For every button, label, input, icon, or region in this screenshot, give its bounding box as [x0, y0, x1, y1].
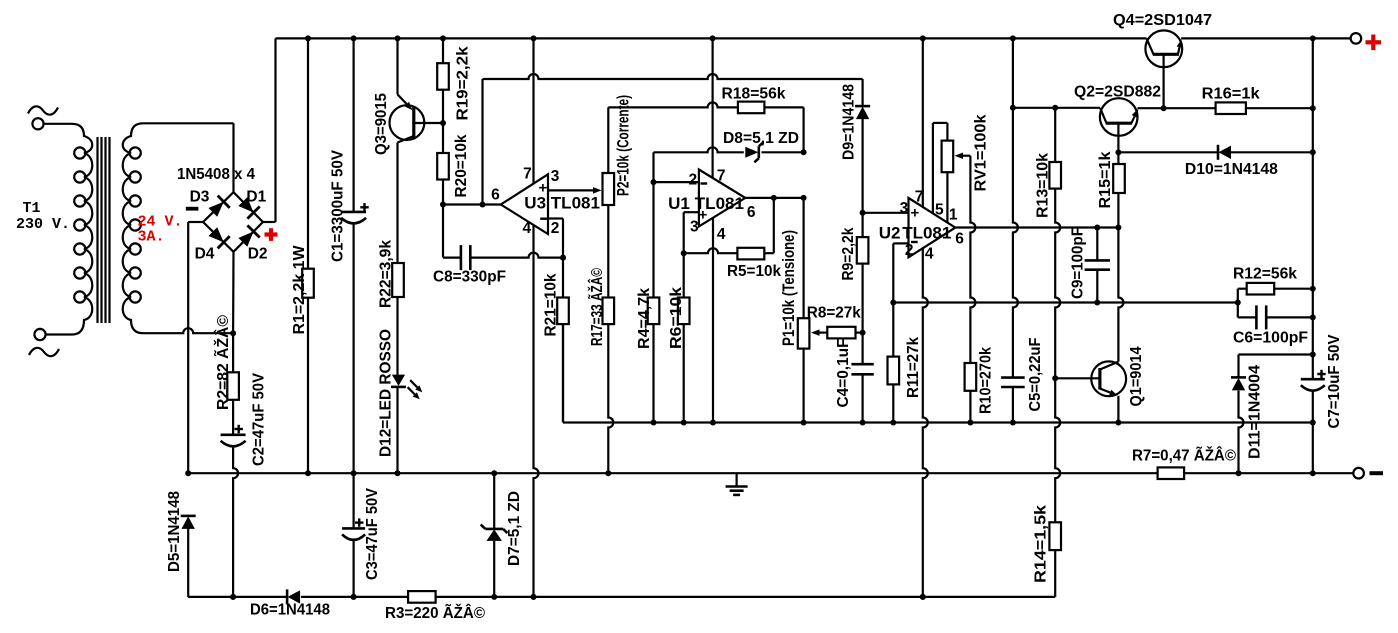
svg-text:D7=5,1 ZD: D7=5,1 ZD [506, 491, 523, 566]
svg-text:R15=1k: R15=1k [1097, 151, 1114, 208]
transistor Q4 (2SD1047) [1145, 30, 1182, 108]
label D4 [195, 246, 215, 263]
label R7=0,47 ohm (mojibake) [1132, 447, 1237, 465]
svg-text:P2=10k (Corrente): P2=10k (Corrente) [614, 95, 633, 196]
transistor Q1 (9014) [1052, 228, 1126, 426]
bridge diamond wiring [203, 192, 263, 252]
svg-text:R16=1k: R16=1k [1202, 86, 1260, 103]
svg-text:R9=2,2k: R9=2,2k [840, 227, 857, 280]
label D9=1N4148 [841, 84, 858, 160]
capacitor C7 (electrolytic) [1301, 370, 1326, 476]
U2 pin 5 wire to RV1 top [933, 123, 948, 213]
resistor R2 [227, 372, 239, 400]
svg-text:D8=5,1 ZD: D8=5,1 ZD [723, 130, 799, 147]
U3 labels [491, 166, 600, 237]
transistor Q2 (2SD882) [1100, 98, 1138, 155]
RV1 wiper arrow [955, 152, 971, 159]
label D8=5,1 ZD [723, 130, 799, 147]
resistor R16 [1216, 102, 1316, 114]
bottom rail [188, 594, 1055, 600]
capacitor C5 [1001, 378, 1025, 426]
svg-text:C7=10uF 50V: C7=10uF 50V [1326, 334, 1343, 429]
capacitor C6 wiring [1238, 303, 1313, 318]
svg-text:R8=27k: R8=27k [807, 304, 861, 321]
svg-text:Q4=2SD1047: Q4=2SD1047 [1113, 12, 1212, 29]
wire Q3 emitter to top rail [396, 38, 398, 94]
svg-text:C8=330pF: C8=330pF [433, 269, 506, 286]
svg-text:R2=82 ÃŽÂ©: R2=82 ÃŽÂ© [214, 314, 232, 410]
svg-text:C6=100pF: C6=100pF [1233, 330, 1308, 347]
label RV1=100k [973, 114, 990, 191]
svg-text:2: 2 [905, 242, 914, 259]
diode D11 wire [1239, 355, 1313, 378]
red plus at bridge [265, 228, 278, 241]
diode D2 [238, 225, 259, 246]
svg-text:+: + [699, 207, 708, 224]
svg-text:Q1=9014: Q1=9014 [1128, 346, 1145, 406]
wire secondary top to bridge [143, 123, 234, 192]
capacitor C1 line [353, 38, 355, 212]
svg-text:6: 6 [747, 204, 756, 221]
diode D1 [238, 197, 259, 218]
label R12=56k [1233, 266, 1297, 283]
svg-text:Q2=2SD882: Q2=2SD882 [1074, 84, 1161, 101]
resistor R6 [678, 253, 690, 425]
resistor R12 [1247, 283, 1275, 295]
potentiometer RV1 [942, 141, 954, 173]
label D7=5,1 ZD [506, 491, 523, 566]
output terminal - (bottom right) [1353, 468, 1383, 479]
svg-text:6: 6 [491, 187, 500, 204]
capacitor C8 [461, 245, 470, 270]
label R1=2,2k 1W [291, 245, 308, 334]
svg-text:R13=10k: R13=10k [1035, 153, 1052, 218]
U1 pin 2 wire [651, 179, 699, 185]
svg-text:C1=3300uF 50V: C1=3300uF 50V [330, 149, 347, 262]
svg-text:D2: D2 [248, 246, 268, 263]
wire P2 top to R18 [608, 102, 738, 173]
potentiometer P2 [603, 173, 615, 205]
resistor R7 [1158, 467, 1185, 479]
svg-text:RV1=100k: RV1=100k [973, 114, 990, 191]
label T1 [23, 200, 41, 217]
svg-text:R7=0,47 ÃŽÂ©: R7=0,47 ÃŽÂ© [1132, 447, 1237, 465]
label R2=82 ohm (mojibake) [214, 314, 232, 410]
op-amp U2 (TL081) [909, 198, 956, 257]
transistor Q3 (9015) [390, 94, 444, 263]
svg-text:C9=100pF: C9=100pF [1070, 227, 1087, 299]
svg-text:R17=33 ÃŽÂ©: R17=33 ÃŽÂ© [588, 268, 606, 346]
U1 labels [668, 168, 756, 243]
U3 output wire pin 6 [443, 202, 501, 208]
resistor R5 feedback wiring [684, 198, 774, 253]
label C7=10uF 50V [1326, 334, 1343, 429]
resistor R3 [408, 591, 436, 603]
top rail (+V unregulated) [276, 35, 1351, 41]
wire Q2 collector [1013, 105, 1100, 111]
svg-text:7: 7 [915, 189, 924, 206]
label C3=47uF 50V [364, 487, 381, 580]
svg-text:D10=1N4148: D10=1N4148 [1185, 161, 1278, 178]
svg-text:5: 5 [935, 201, 944, 218]
svg-text:D9=1N4148: D9=1N4148 [841, 84, 858, 160]
svg-text:R20=10k: R20=10k [453, 134, 470, 197]
label D12=LED ROSSO [378, 329, 395, 457]
label R9=2,2k [840, 227, 857, 280]
op-amp U3 (TL081) pointing left [501, 174, 548, 234]
svg-text:+: + [911, 205, 920, 222]
resistor R22 [392, 263, 404, 375]
svg-text:7: 7 [717, 168, 726, 185]
svg-text:R12=56k: R12=56k [1233, 266, 1297, 283]
label R4=4,7k [636, 288, 653, 349]
label C6=100pF [1233, 330, 1308, 347]
svg-text:P1=10k (Tensione): P1=10k (Tensione) [779, 230, 798, 346]
wire bridge bottom chain [232, 252, 235, 372]
diode D11 [1231, 377, 1246, 476]
resistor R9 [857, 213, 869, 333]
U3 pin 3 wire with arrow to P2 wiper [548, 187, 602, 194]
U2 pin2 feedback wire to R12/C6 [893, 300, 1241, 306]
minus sign at bridge [186, 207, 199, 211]
label R20=10k [453, 134, 470, 197]
resistor R18 [738, 102, 804, 153]
resistor R14 [1049, 522, 1061, 597]
resistor R20 [437, 123, 449, 208]
svg-text:U2: U2 [879, 223, 901, 242]
label Q2=2SD882 [1074, 84, 1161, 101]
zener D8 wire [654, 147, 807, 182]
label R11=27k [905, 337, 922, 398]
diode D9 [855, 106, 870, 216]
label R18=56k [722, 86, 786, 103]
zener D8 (5,1 ZD) [745, 142, 763, 162]
label 230 V. [16, 216, 70, 233]
label R3=220 ohm (mojibake) [385, 604, 486, 622]
svg-text:D12=LED ROSSO: D12=LED ROSSO [378, 329, 395, 457]
capacitor C3 (electrolytic) [342, 473, 365, 600]
capacitor C5 line [1013, 108, 1018, 378]
diode D4 [209, 227, 230, 248]
label R16=1k [1202, 86, 1260, 103]
svg-text:Q3=9015: Q3=9015 [373, 93, 390, 155]
U2 pin 3 wire [863, 212, 909, 214]
ground rail [188, 472, 1353, 474]
diode D10 [1218, 145, 1231, 160]
svg-text:2: 2 [689, 171, 698, 188]
svg-text:3A.: 3A. [138, 229, 165, 246]
svg-text:4: 4 [717, 226, 726, 243]
svg-text:R19=2,2k: R19=2,2k [455, 46, 472, 120]
label R19=2,2k [455, 46, 472, 120]
svg-text:1: 1 [949, 206, 958, 223]
U3 pin 4 wire to bottom rail [531, 225, 539, 600]
svg-text:R1=2,2k 1W: R1=2,2k 1W [291, 245, 308, 334]
resistor R17 [603, 205, 615, 476]
resistor R1 line [307, 38, 309, 268]
ground symbol [726, 473, 748, 495]
AC input terminal bottom [29, 329, 72, 356]
capacitor C2 (electrolytic) [221, 400, 246, 600]
diode D5 [181, 516, 196, 597]
capacitor C8 wiring [443, 205, 566, 261]
label Q4=2SD1047 [1113, 12, 1212, 29]
svg-text:4: 4 [925, 246, 934, 263]
svg-text:C2=47uF 50V: C2=47uF 50V [251, 372, 268, 466]
svg-text:U1: U1 [668, 194, 690, 213]
wire output vertical right [1310, 38, 1316, 379]
resistor R1 [302, 269, 314, 477]
label 1N5408 x 4 [177, 166, 255, 183]
svg-text:3: 3 [551, 168, 560, 185]
U1 pin 4 wire to V- bus [710, 218, 716, 426]
resistor R8 [827, 327, 855, 339]
label C4=0,1uF [835, 339, 852, 408]
U3 pin 7 wire to top rail [532, 38, 534, 183]
svg-text:R10=270k: R10=270k [978, 347, 995, 414]
svg-text:R14=1,5k: R14=1,5k [1033, 505, 1050, 583]
feedback wire U3 output to D9 top [483, 74, 863, 205]
wire bridge plus to top rail [263, 38, 276, 222]
label C5=0,22uF [1027, 338, 1044, 412]
resistor R13 [1049, 108, 1061, 523]
label P2=10k (Corrente) [614, 95, 633, 196]
svg-text:T1: T1 [23, 200, 41, 217]
U1 output wire pin 6 [745, 195, 806, 201]
svg-text:6: 6 [955, 230, 964, 247]
label D2 [248, 246, 268, 263]
svg-text:D1: D1 [246, 189, 266, 206]
label P1=10k (Tensione) [779, 230, 798, 346]
label 24 V. (red) [138, 214, 183, 231]
AC input terminal top [28, 106, 72, 129]
svg-text:R3=220 ÃŽÂ©: R3=220 ÃŽÂ© [385, 604, 486, 622]
svg-text:C4=0,1uF: C4=0,1uF [835, 339, 852, 408]
svg-text:D11=1N4004: D11=1N4004 [1247, 365, 1264, 459]
LED D12 [391, 375, 422, 477]
U2 output wire pin 6 [955, 225, 1121, 231]
resistor R5 [737, 248, 764, 260]
label D3 [190, 189, 210, 206]
label R15=1k [1097, 151, 1114, 208]
svg-text:D3: D3 [190, 189, 210, 206]
P1 wiper arrow and R8 wire [811, 329, 866, 336]
label Q3=9015 [373, 93, 390, 155]
label R22=3,9k [378, 240, 395, 308]
label R8=27k [807, 304, 861, 321]
resistor R11 [888, 300, 900, 426]
label R10=270k [978, 347, 995, 414]
resistor R21 [557, 258, 569, 423]
capacitor C9 [1085, 228, 1110, 303]
svg-text:R21=10k: R21=10k [543, 273, 560, 336]
red plus at output [1366, 35, 1382, 51]
svg-text:R18=56k: R18=56k [722, 86, 786, 103]
label Q1=9014 [1128, 346, 1145, 406]
resistor R15 [1113, 152, 1125, 227]
label C9=100pF [1070, 227, 1087, 299]
label C2=47uF 50V [251, 372, 268, 466]
wire bridge minus to D5 line [185, 222, 203, 476]
U2 pin 7 wire to top rail [922, 38, 924, 206]
V- bus to R21 corner [562, 324, 564, 422]
svg-text:3: 3 [900, 200, 909, 217]
label R14=1,5k [1033, 505, 1050, 583]
RV1 wiper line to R10 [970, 156, 975, 363]
svg-text:4: 4 [523, 220, 532, 237]
capacitor C1 (electrolytic) [341, 203, 369, 476]
capacitor C4 [851, 333, 873, 426]
U2 labels [879, 189, 965, 263]
diode D3 [209, 196, 230, 217]
potentiometer P1 [798, 318, 810, 425]
label R5=10k [727, 263, 781, 280]
svg-text:1N5408 x 4: 1N5408 x 4 [177, 166, 255, 183]
svg-text:C5=0,22uF: C5=0,22uF [1027, 338, 1044, 412]
label D10=1N4148 [1185, 161, 1278, 178]
diode D6 [287, 589, 300, 604]
wire secondary bottom to bridge bottom node [143, 328, 236, 336]
resistor R10 [965, 363, 977, 426]
label D1 [246, 189, 266, 206]
label 3A. (red) [138, 229, 165, 246]
transformer T1 primary winding [72, 124, 92, 335]
capacitor C6 [1256, 305, 1266, 329]
svg-text:C3=47uF 50V: C3=47uF 50V [364, 487, 381, 580]
resistor R4 [648, 182, 660, 425]
U3 pin 2 stub [548, 219, 566, 261]
V- bus wire [563, 420, 1316, 426]
U1 pin 3 wire [681, 212, 699, 256]
label C8=330pF [433, 269, 506, 286]
U2 pin 4 wire to bottom rail [920, 249, 928, 600]
U1 pin 7 wire to top rail [711, 38, 713, 178]
resistor R12 wiring [1238, 289, 1313, 303]
label R6=10k [668, 287, 685, 349]
svg-text:D6=1N4148: D6=1N4148 [250, 602, 330, 619]
transformer T1 secondary winding [123, 123, 143, 333]
wire U1 output to P1 [802, 198, 804, 318]
svg-text:R6=10k: R6=10k [668, 287, 685, 349]
output terminal + (top right) [1351, 33, 1362, 44]
label D5=1N4148 [166, 491, 183, 572]
svg-text:7: 7 [523, 166, 532, 183]
wire Q2 emitter to R16 [1138, 105, 1216, 111]
diode D10 wire [1118, 151, 1312, 153]
wire top rail to Q2 collector node [1010, 38, 1016, 110]
svg-text:R11=27k: R11=27k [905, 337, 922, 398]
U2 pin 1 wire to RV1 bottom [946, 172, 948, 222]
svg-text:2: 2 [551, 220, 560, 237]
svg-text:D5=1N4148: D5=1N4148 [166, 491, 183, 572]
svg-text:R5=10k: R5=10k [727, 263, 781, 280]
svg-text:TL081: TL081 [902, 223, 951, 242]
label C1=3300uF 50V [330, 149, 347, 262]
label D11=1N4004 [1247, 365, 1264, 459]
zener D7 [481, 470, 508, 597]
label R21=10k [543, 273, 560, 336]
label R13=10k [1035, 153, 1052, 218]
resistor R19 [437, 38, 449, 126]
svg-text:TL081: TL081 [551, 194, 600, 213]
svg-text:D4: D4 [195, 246, 215, 263]
label R17=33 ohm (mojibake) [588, 268, 606, 346]
transformer T1 core [98, 137, 110, 323]
op-amp U1 (TL081) [699, 170, 745, 227]
label D6=1N4148 [250, 602, 330, 619]
U2 pin 2 wire [893, 243, 908, 302]
svg-text:230 V.: 230 V. [16, 216, 70, 233]
svg-text:+: + [539, 180, 548, 197]
svg-text:R4=4,7k: R4=4,7k [636, 288, 653, 349]
svg-text:R22=3,9k: R22=3,9k [378, 240, 395, 308]
